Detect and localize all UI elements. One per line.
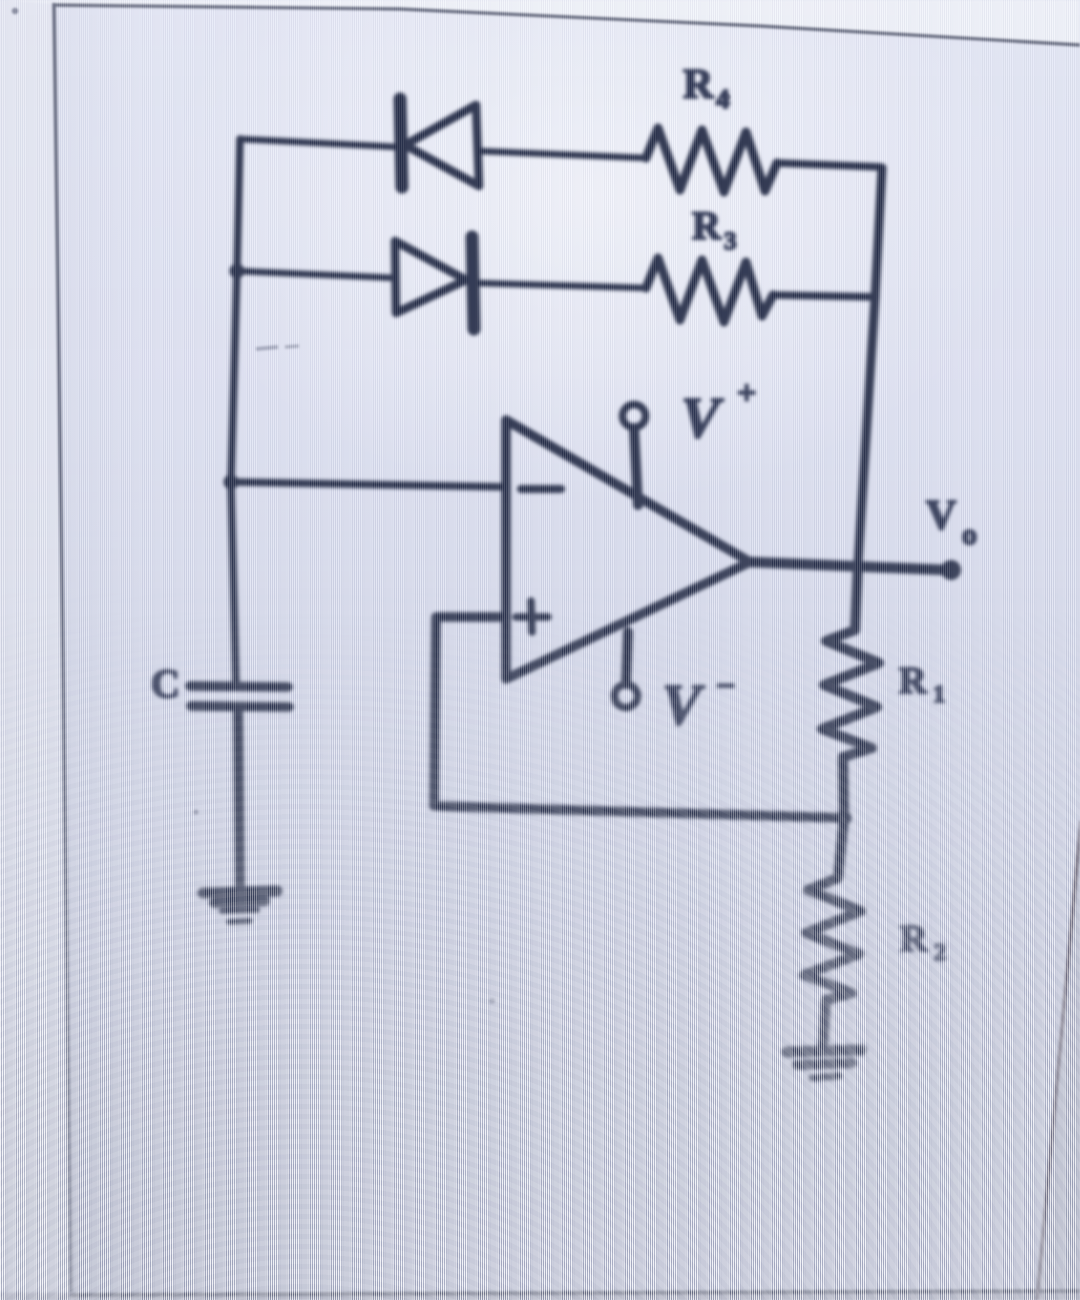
svg-text:V: V <box>662 672 705 737</box>
resistor R1 <box>822 563 879 818</box>
wire capacitor to ground <box>238 710 240 889</box>
V- pin <box>626 632 628 684</box>
svg-text:R: R <box>900 918 928 960</box>
feedback wire from plus input <box>434 617 844 818</box>
V+ pin <box>634 428 638 505</box>
svg-text:R: R <box>683 62 714 108</box>
wire row2 to diode D2 <box>237 271 396 278</box>
left vertical wire <box>231 139 240 684</box>
capacitor C <box>190 686 289 707</box>
wire R4 to right corner <box>777 163 881 167</box>
wire D1 to R4 <box>478 151 646 158</box>
wire R3 to right vertical <box>773 295 876 297</box>
wire node C to op-amp minus input <box>231 482 507 487</box>
resistor R4 <box>646 128 777 192</box>
op-amp U1 triangle <box>506 420 750 679</box>
node B junction dot <box>230 264 245 279</box>
svg-text:o: o <box>962 518 977 551</box>
diode D1 (cathode bar left, pointing left) <box>400 99 479 187</box>
svg-text:V: V <box>681 385 724 450</box>
svg-text:−: − <box>716 668 735 705</box>
svg-text:1: 1 <box>933 682 945 708</box>
diode D2 (pointing right, cathode bar right) <box>395 237 474 329</box>
resistor R2 <box>804 818 861 1047</box>
node junction dot R1/R2 <box>837 811 852 826</box>
op-amp plus sign <box>516 601 548 632</box>
output terminal dot <box>941 560 961 580</box>
node C junction dot <box>224 475 239 490</box>
svg-text:+: + <box>737 375 756 412</box>
wire right vertical (R4 corner down past R3 to output node) <box>858 168 882 563</box>
svg-text:2: 2 <box>934 940 946 966</box>
svg-text:R: R <box>692 203 722 248</box>
svg-text:R: R <box>899 660 927 702</box>
ground under R2 <box>787 1050 861 1078</box>
wire D2 to R3 <box>476 283 646 288</box>
output wire to Vo <box>750 562 946 570</box>
svg-text:C: C <box>151 661 180 706</box>
svg-text:V: V <box>926 493 956 539</box>
op-amp minus sign <box>521 485 561 493</box>
svg-text:4: 4 <box>716 84 730 114</box>
svg-text:3: 3 <box>724 228 737 255</box>
ground under C <box>203 891 277 922</box>
resistor R3 <box>646 258 773 322</box>
wire top-left horizontal to diode D1 <box>240 139 397 147</box>
